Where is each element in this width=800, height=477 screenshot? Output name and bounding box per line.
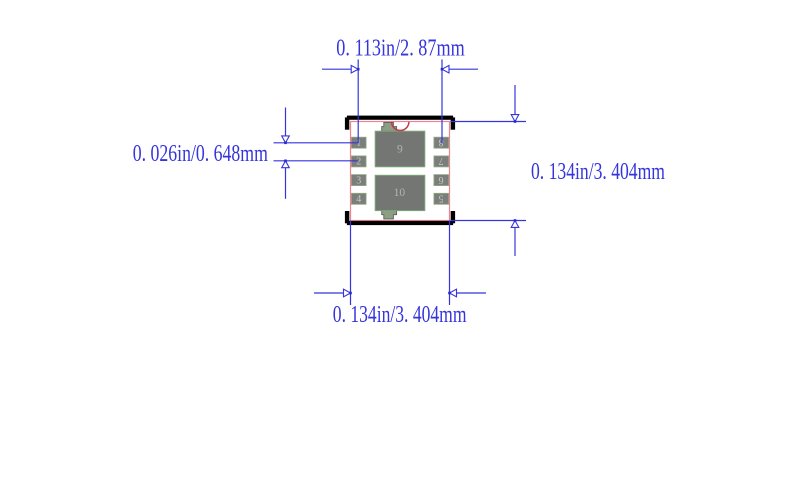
package body bracket bottom-right stub: [451, 211, 455, 223]
package body bracket bottom bar: [347, 221, 453, 225]
svg-text:0. 113in/2. 87mm: 0. 113in/2. 87mm: [336, 36, 465, 62]
right dimension line upper segment: [514, 85, 516, 115]
svg-text:9: 9: [397, 143, 403, 155]
top dimension extension line right (to pad 8 center): [441, 60, 443, 144]
svg-text:10: 10: [394, 187, 406, 199]
package body bracket top-left stub: [345, 117, 349, 129]
left dimension line upper segment: [285, 108, 287, 137]
top dimension line right segment: [449, 68, 478, 70]
bottom dimension line left segment: [314, 292, 344, 294]
junction dot left-dim upper tip: [284, 142, 287, 145]
thermal tab of pad 10: [382, 210, 397, 219]
svg-text:4: 4: [356, 194, 361, 205]
left dimension arrow up: [282, 161, 290, 168]
package body bracket top-right stub: [451, 117, 455, 129]
pin1 indicator red arc: [392, 122, 409, 131]
svg-text:5: 5: [439, 193, 444, 204]
pad 6: [434, 175, 449, 186]
exposed pad 10: [375, 175, 425, 210]
left dimension arrow down: [282, 136, 290, 143]
package body bracket top bar: [347, 116, 453, 120]
junction dot right-dim upper tip: [514, 120, 517, 123]
bottom dimension arrow right: [450, 289, 457, 297]
pad 5: [434, 193, 449, 204]
pad 1: [351, 137, 366, 148]
junction dot top-right arrow tip: [441, 68, 444, 71]
svg-text:0. 134in/3. 404mm: 0. 134in/3. 404mm: [333, 302, 467, 328]
svg-text:6: 6: [439, 174, 444, 185]
top dimension arrow left: [351, 65, 358, 73]
right dimension arrow down: [511, 115, 519, 122]
package body bracket bottom-left stub: [345, 211, 349, 223]
right dimension line lower segment: [514, 227, 516, 256]
right dimension extension line upper (package top): [450, 121, 526, 123]
top dimension extension line left (to pad 1 center): [357, 60, 359, 144]
left dimension line lower segment: [285, 168, 287, 199]
svg-text:8: 8: [439, 137, 444, 148]
junction dot bottom-right arrow tip: [448, 292, 451, 295]
bottom dimension extension line right (package right): [449, 221, 451, 306]
bottom dimension line right segment: [456, 292, 486, 294]
pad 2: [351, 156, 366, 167]
left dimension extension line upper (pad 1 center): [274, 142, 358, 144]
bottom dimension arrow left: [344, 289, 351, 297]
junction dot left-dim lower tip: [284, 160, 287, 163]
exposed pad 9: [375, 131, 425, 167]
right dimension extension line lower (package bottom): [450, 220, 526, 222]
package courtyard outline red rectangle: [351, 122, 450, 221]
pad 4: [351, 193, 366, 204]
bottom dimension extension line left (package left): [350, 221, 352, 306]
junction dot right-dim lower tip: [514, 219, 517, 222]
pad 8: [434, 137, 449, 148]
svg-text:0. 134in/3. 404mm: 0. 134in/3. 404mm: [531, 159, 665, 185]
junction dot bottom-left arrow tip: [349, 292, 352, 295]
right dimension arrow up: [511, 221, 519, 228]
svg-text:0. 026in/0. 648mm: 0. 026in/0. 648mm: [133, 141, 268, 167]
svg-text:2: 2: [356, 157, 361, 168]
thermal tab of pad 9: [382, 122, 397, 131]
top dimension arrow right: [442, 65, 449, 73]
top dimension line left segment: [322, 68, 352, 70]
svg-text:3: 3: [356, 175, 361, 186]
pad 3: [351, 175, 366, 186]
pad 7: [434, 156, 449, 167]
svg-text:7: 7: [439, 155, 444, 166]
left dimension extension line lower (pad 2 center): [274, 160, 358, 162]
junction dot top-left arrow tip: [357, 68, 360, 71]
